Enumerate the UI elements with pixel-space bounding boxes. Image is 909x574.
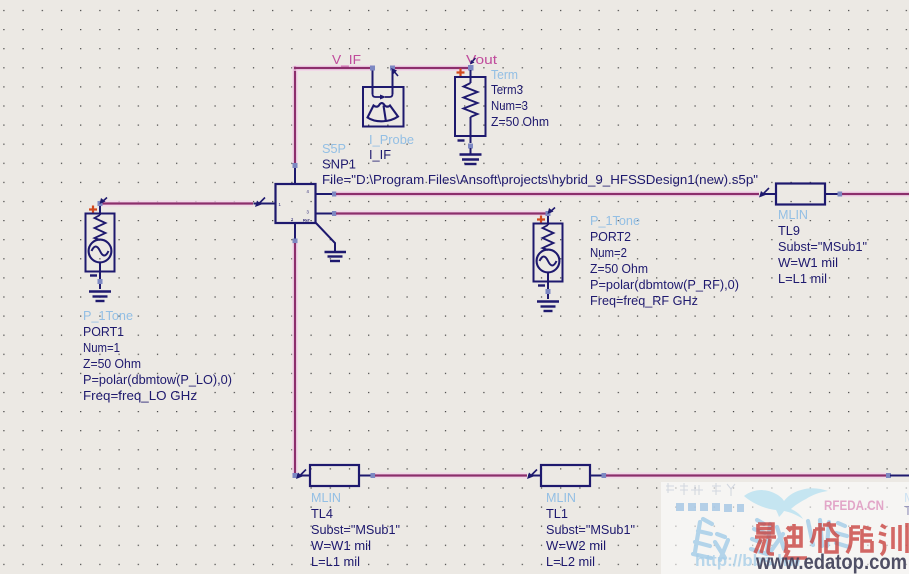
svg-text:MLIN: MLIN [546,490,576,505]
svg-text:www.edatop.com: www.edatop.com [755,550,907,574]
wire S5P pin 3 to PORT2 node [336,211,547,217]
label Freq=freq_LO GHz [83,388,197,403]
pin number 4 label [307,189,310,194]
svg-text:File="D:\Program Files\Ansoft\: File="D:\Program Files\Ansoft\projects\h… [322,172,758,187]
svg-text:W=W2 mil: W=W2 mil [546,538,606,553]
svg-text:L=L1 mil: L=L1 mil [311,554,360,569]
node Vout junction square with arrow and plus [457,58,476,77]
transmission line TL1 (MLIN) [527,465,607,486]
current probe I_Probe (I_IF) [363,68,404,127]
svg-text:Ref: Ref [303,218,310,223]
label SNP1 [322,157,356,172]
label Num=2 [590,245,627,260]
label Subst MSub1 (TL9) [778,239,867,254]
label Num=1 [83,340,120,355]
source PORT1 (P_1Tone) [86,198,115,290]
junction square I_Probe pin 1 on wire V_IF [370,66,375,71]
svg-text:Num=3: Num=3 [491,98,528,113]
label TL1 [546,506,568,521]
svg-text:Num=1: Num=1 [83,340,120,355]
label P=polar(dbmtow(P_RF),0) [590,277,739,292]
label Z=50 Ohm [491,114,549,129]
label S5P [322,141,346,156]
label W=W2 mil (TL1) [546,538,606,553]
label L=L1 mil (TL4) [311,554,360,569]
svg-text:PORT2: PORT2 [590,229,631,244]
ground under Term3 [460,155,482,165]
svg-text:V_IF: V_IF [332,52,361,67]
svg-text:PORT1: PORT1 [83,324,124,339]
junction square S5P top pin [293,163,298,168]
label MLIN (TL1) [546,490,576,505]
label P=polar(dbmtow(P_LO),0) [83,372,232,387]
source PORT2 (P_1Tone) [534,208,563,300]
label PORT2 [590,229,631,244]
junction square I_Probe pin 2 with connect arrow [390,66,398,77]
label TL4 [311,506,333,521]
junction square bottom-left corner [293,473,298,478]
wire PORT1 node to S5P pin 1 [101,198,265,208]
wire S5P bottom pin down to bottom bus [292,243,298,475]
watermark http text [695,551,802,570]
pin Ref label [303,218,310,223]
svg-text:MLIN: MLIN [778,207,808,222]
label W=W1 mil (TL4) [311,538,371,553]
ground under PORT1 [89,292,111,302]
junction square at right edge MLIN pin [886,473,909,478]
clipped label MLIN of off-screen component [904,490,909,505]
svg-text:Term3: Term3 [491,82,523,97]
svg-text:W=W1 mil: W=W1 mil [778,255,838,270]
transmission line TL4 (MLIN) [296,465,376,486]
svg-text:Subst="MSub1": Subst="MSub1" [778,239,867,254]
svg-text:L=L2 mil: L=L2 mil [546,554,595,569]
clipped label TL of off-screen component [904,503,909,518]
terminator Term3 [455,70,486,154]
svg-text:P_1Tone: P_1Tone [590,213,640,228]
svg-text:RFEDA.CN: RFEDA.CN [824,498,884,513]
svg-text:Z=50 Ohm: Z=50 Ohm [590,261,648,276]
net label V_IF [332,52,361,67]
label Subst MSub1 (TL1) [546,522,635,537]
watermark www.edatop.com [755,550,907,574]
wire net V_IF vertical segment from corner to S5P top pin [292,66,298,163]
pin number 1 label [279,202,282,207]
svg-text:S5P: S5P [322,141,346,156]
svg-text:TL1: TL1 [546,506,568,521]
pin number 2 label [291,217,294,222]
junction square S5P bottom pin [293,239,298,244]
svg-text:I_IF: I_IF [369,147,391,162]
label Z=50 Ohm PORT1 [83,356,141,371]
svg-text:Num=2: Num=2 [590,245,627,260]
label MLIN (TL9) [778,207,808,222]
label L=L2 mil (TL1) [546,554,595,569]
wire net V_IF top horizontal right segment (I_Probe pin2 to Vout node) [393,65,469,71]
svg-text:P_1Tone: P_1Tone [83,308,133,323]
svg-text:Subst="MSub1": Subst="MSub1" [546,522,635,537]
ground under PORT2 [537,302,559,312]
label Z=50 Ohm PORT2 [590,261,648,276]
label P_1Tone (PORT2) [590,213,640,228]
label Subst MSub1 (TL4) [311,522,400,537]
watermark backdrop [661,482,909,574]
wire TL9 to right edge [842,191,909,197]
svg-text:W=W1 mil: W=W1 mil [311,538,371,553]
junction square S5P pin 3 [332,211,337,216]
label PORT1 [83,324,124,339]
svg-text:TL4: TL4 [311,506,333,521]
svg-text:Freq=freq_LO GHz: Freq=freq_LO GHz [83,388,197,403]
watermark RFEDA.CN [824,498,884,513]
junction square S5P pin 4 [332,192,337,197]
label W=W1 mil (TL9) [778,255,838,270]
svg-text:P=polar(dbmtow(P_LO),0): P=polar(dbmtow(P_LO),0) [83,372,232,387]
wire TL4 to TL1 [375,473,527,479]
svg-text:Subst="MSub1": Subst="MSub1" [311,522,400,537]
watermark red chinese 易迪拓培训 [755,522,907,558]
watermark calligraphy blue glyphs [693,519,849,560]
svg-text:TL9: TL9 [778,223,800,238]
svg-text:Z=50 Ohm: Z=50 Ohm [491,114,549,129]
svg-text:I_Probe: I_Probe [369,132,414,147]
net label Vout [466,52,497,67]
svg-text:P=polar(dbmtow(P_RF),0): P=polar(dbmtow(P_RF),0) [590,277,739,292]
label Num=3 [491,98,528,113]
wire S5P pin 4 to TL9 [336,191,759,197]
label Term3 [491,82,523,97]
S-parameter block SNP1 (S5P) [254,167,336,251]
transmission line TL9 (MLIN) [759,184,843,205]
svg-text:L=L1 mil: L=L1 mil [778,271,827,286]
watermark faint small chinese row [666,483,735,496]
label MLIN (TL4) [311,490,341,505]
label TL9 [778,223,800,238]
watermark small blue squares row [676,503,744,512]
wire TL1 to right MLIN [606,473,886,479]
label Term [491,67,518,82]
label I_Probe [369,132,414,147]
svg-text:Term: Term [491,67,518,82]
label Freq=freq_RF GHz [590,293,698,308]
label L=L1 mil (TL9) [778,271,827,286]
label I_IF [369,147,391,162]
ground at S5P Ref pin [325,252,347,261]
svg-text:Vout: Vout [466,52,497,67]
pin number 3 label [307,210,310,215]
svg-text:Freq=freq_RF GHz: Freq=freq_RF GHz [590,293,698,308]
svg-text:SNP1: SNP1 [322,157,356,172]
watermark bird logo [744,488,828,519]
label P_1Tone (PORT1) [83,308,133,323]
svg-text:MLIN: MLIN [311,490,341,505]
svg-text:Z=50 Ohm: Z=50 Ohm [83,356,141,371]
wire net V_IF top horizontal left segment (corner to I_Probe pin1) [294,65,372,71]
label File= value [322,172,758,187]
